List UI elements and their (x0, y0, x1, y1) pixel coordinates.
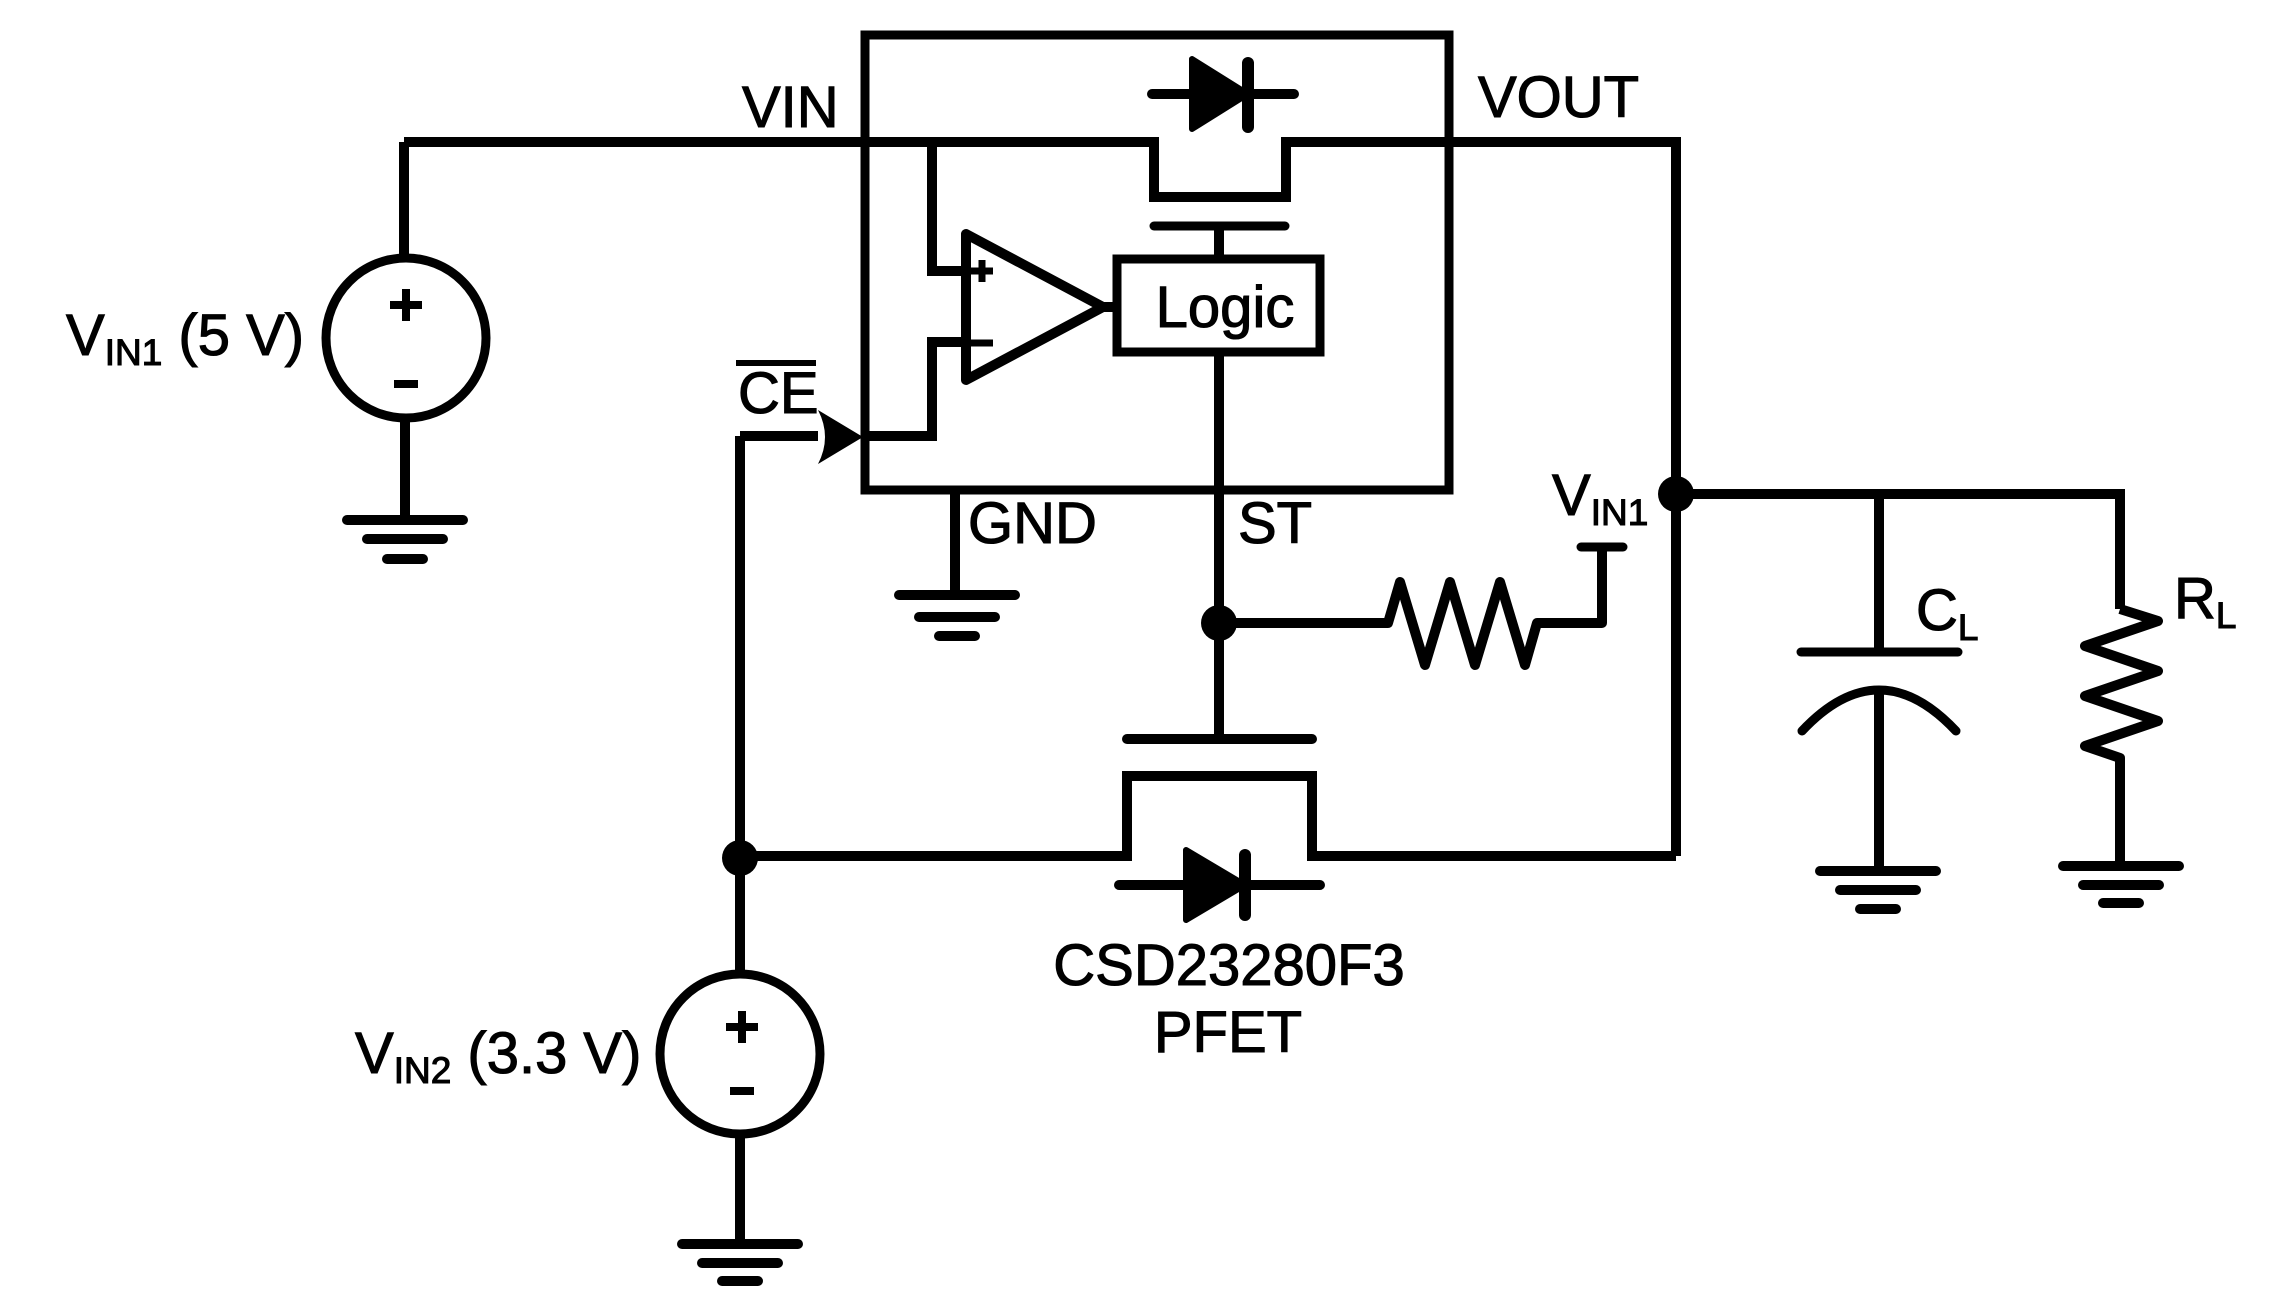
ground (V_IN1 source) (347, 520, 463, 559)
external PFET body diode cathode bar (1239, 855, 1251, 915)
body diode D1 cathode bar (1242, 63, 1254, 127)
comparator U2 triangle (966, 234, 1103, 380)
CE arrowhead (818, 410, 863, 464)
voltage source V_IN1 (5 V) (326, 258, 486, 418)
wire V_IN2 to ground (735, 1134, 745, 1244)
node ST junction (1201, 605, 1237, 641)
comparator + symbol (971, 260, 993, 282)
ground (GND pin) (899, 595, 1015, 636)
pass PFET Q1 gate lead to logic (1214, 226, 1224, 259)
resistor R_L zigzag (2085, 609, 2158, 866)
external PFET body diode line (1119, 880, 1320, 890)
svg-text:ST: ST (1238, 491, 1312, 556)
svg-text:VIN1 (5 V): VIN1 (5 V) (66, 303, 304, 373)
Logic box (1117, 259, 1320, 352)
supply bar V_IN1 pull-up (1581, 543, 1623, 552)
ST wire from Logic through IC bottom to external PFET gate (1214, 352, 1224, 739)
ground (R_L) (2063, 866, 2179, 903)
svg-text:VOUT: VOUT (1478, 65, 1639, 130)
ground (C_L) (1820, 871, 1936, 909)
capacitor C_L top plate (1801, 648, 1958, 657)
svg-text:GND: GND (968, 491, 1097, 556)
comparator output wire (1103, 302, 1117, 312)
ground (V_IN2) (682, 1244, 798, 1281)
wire source V_IN1 to ground (400, 418, 410, 520)
svg-text:VIN: VIN (742, 75, 839, 140)
svg-text:Logic: Logic (1156, 275, 1295, 340)
body diode D1 (internal, anode-cathode line) (1152, 89, 1294, 99)
comparator - symbol (971, 340, 993, 347)
comparator U2 input wire - (from CE) (864, 342, 966, 436)
pass PFET Q1 gate bar (1154, 222, 1285, 231)
external PFET Q2 source-drain path from V_IN2 node to VOUT (740, 776, 1676, 856)
wire from V_IN1 source top lead (399, 142, 409, 258)
voltage source V_IN2 (3.3 V) (660, 974, 820, 1134)
resistor R1 pull-up (ST to V_IN1) (1219, 547, 1602, 665)
node VOUT junction (1658, 476, 1694, 512)
IC U1 box (865, 35, 1449, 490)
wire VIN from source V_IN1 to IC and internal PFET source (404, 142, 1676, 856)
capacitor C_L curved plate (1802, 690, 1956, 731)
GND pin wire (950, 490, 960, 595)
external PFET Q2 gate bar (1127, 734, 1312, 744)
svg-text:CSD23280F3: CSD23280F3 (1053, 933, 1404, 998)
capacitor C_L top lead (1874, 494, 1884, 652)
body diode D1 triangle (1192, 59, 1248, 129)
wire VOUT node to load branch (1676, 494, 2120, 609)
node V_IN2 junction (722, 840, 758, 876)
comparator U2 input wire + (from VIN) (932, 142, 966, 271)
svg-text:PFET: PFET (1154, 1000, 1302, 1065)
svg-text:CE: CE (738, 361, 819, 426)
CE overbar (736, 360, 816, 366)
external PFET body diode triangle (1186, 850, 1245, 920)
CE wire from node up to IC pin (740, 436, 818, 974)
capacitor C_L bottom lead (1874, 690, 1884, 871)
